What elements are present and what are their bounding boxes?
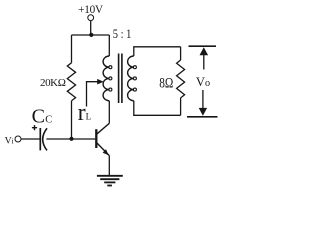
- polarity plus sign: [32, 125, 37, 130]
- svg-text:Vi: Vi: [5, 135, 14, 146]
- svg-text:C: C: [45, 115, 52, 126]
- transistor Q1 base bar: [95, 129, 97, 148]
- transformer core: [119, 54, 122, 104]
- svg-text:20KΩ: 20KΩ: [40, 77, 66, 89]
- wire: rail down to R1: [71, 35, 73, 63]
- wire: emitter to ground: [108, 156, 110, 176]
- capacitor C_C curved plate: [43, 128, 47, 150]
- wire: collector to transformer primary: [108, 101, 110, 124]
- transistor Q1 emitter arrowhead: [103, 149, 109, 155]
- capacitor C_C flat plate: [39, 128, 41, 150]
- wire: top rail: [72, 34, 110, 36]
- transformer T1 primary winding: [103, 56, 109, 101]
- wire: capacitor to base: [46, 138, 95, 140]
- resistor 20KΩ: [67, 63, 75, 101]
- wire: load drop: [180, 47, 182, 60]
- svg-text:5 : 1: 5 : 1: [113, 27, 132, 41]
- current arrow iL: [87, 82, 99, 107]
- Vo bottom bar: [187, 116, 218, 118]
- Vo down arrow: [202, 90, 204, 109]
- wire: R1 to base node: [71, 101, 73, 139]
- resistor 8Ω: [177, 60, 185, 98]
- svg-text:8Ω: 8Ω: [159, 75, 173, 90]
- svg-text:C: C: [32, 105, 45, 127]
- node: base junction dot: [69, 137, 73, 141]
- wire: Vi to capacitor: [21, 138, 40, 140]
- Vo top bar: [189, 45, 217, 47]
- Vo up arrow: [203, 53, 205, 70]
- wire: terminal to top rail: [90, 21, 92, 35]
- node: supply junction dot: [89, 33, 93, 37]
- transistor Q1 collector lead: [97, 123, 110, 134]
- svg-text:Vo: Vo: [196, 75, 210, 89]
- wire: secondary bottom lead: [134, 101, 181, 116]
- transistor Q1 emitter lead: [97, 143, 110, 156]
- transformer T1 secondary winding: [128, 56, 134, 101]
- ground: [97, 176, 123, 186]
- svg-text:rL: rL: [78, 100, 92, 126]
- wire: R2 to bottom lead: [180, 98, 182, 115]
- wire: top rail down to primary: [108, 35, 110, 56]
- +10V supply terminal: [88, 15, 94, 21]
- input terminal Vi: [15, 136, 21, 142]
- wire: secondary top lead: [134, 47, 181, 56]
